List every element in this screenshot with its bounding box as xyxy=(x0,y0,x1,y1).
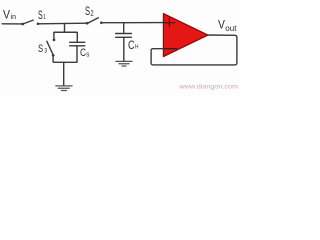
svg-text:out: out xyxy=(225,23,237,33)
wire CH bottom feed to ground xyxy=(123,37,125,61)
wire S2 to op-amp noninverting input xyxy=(101,22,163,24)
svg-text:H: H xyxy=(135,44,139,51)
wire S1 to S2 xyxy=(38,22,87,25)
svg-text:1: 1 xyxy=(43,14,46,21)
switch S3 bottom contact dot xyxy=(52,54,55,57)
switch S3 blade xyxy=(47,41,53,55)
switch S3 bottom contact stub xyxy=(52,55,54,61)
switch S2 left contact xyxy=(86,22,89,25)
svg-text:S: S xyxy=(85,4,90,18)
svg-text:C: C xyxy=(128,38,135,52)
op-amp inverting input minus sign xyxy=(163,48,176,50)
svg-text:S: S xyxy=(38,8,43,22)
switch S3 top contact dot xyxy=(53,39,56,42)
switch S3 top contact stub xyxy=(53,33,55,39)
wire output and feedback loop to inverting input xyxy=(151,35,237,65)
wire S3/Cs box bottom edge xyxy=(53,61,77,62)
svg-text:2: 2 xyxy=(91,9,94,18)
svg-text:www.diangon.com: www.diangon.com xyxy=(178,83,238,90)
svg-text:s: s xyxy=(86,52,90,59)
svg-text:S: S xyxy=(38,43,43,55)
wire Cs top feed xyxy=(76,33,78,42)
op-amp U1 triangle xyxy=(163,14,208,57)
switch S1 left contact xyxy=(21,23,24,26)
capacitor CH top plate xyxy=(116,33,132,35)
ground symbol under CH xyxy=(116,61,132,66)
switch S1 right contact xyxy=(37,22,40,25)
op-amp noninverting input plus sign xyxy=(163,18,174,26)
capacitor Cs top plate xyxy=(70,41,85,43)
wire Cs bottom feed xyxy=(76,46,78,62)
switch S1 blade xyxy=(24,20,33,24)
wire S3/Cs box top edge xyxy=(54,32,77,33)
ground symbol under Cs box xyxy=(56,86,72,91)
switch S2 blade xyxy=(88,18,98,23)
wire stem down to capacitor CH xyxy=(123,23,125,34)
wire node stem down to S3/Cs box xyxy=(64,24,66,33)
svg-text:V: V xyxy=(3,9,10,22)
capacitor CH bottom plate xyxy=(116,36,132,38)
switch S2 right contact xyxy=(100,21,103,24)
svg-text:V: V xyxy=(218,18,225,32)
wire Vin to S1 xyxy=(2,23,23,25)
wire box bottom stem to ground xyxy=(63,62,65,85)
svg-text:in: in xyxy=(11,12,17,21)
svg-text:3: 3 xyxy=(44,47,47,54)
capacitor Cs bottom plate xyxy=(70,45,85,47)
